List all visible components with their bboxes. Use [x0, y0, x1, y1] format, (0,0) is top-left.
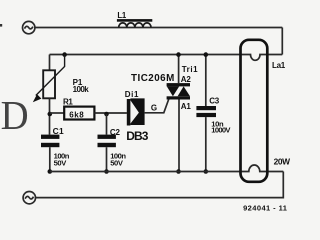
- AC source terminal top: [23, 21, 35, 33]
- AC source terminal bottom: [23, 192, 35, 204]
- watermark letter D: [1, 93, 29, 138]
- triac Tri1: [131, 55, 198, 172]
- svg-text:G: G: [151, 103, 157, 112]
- junction triac top: [176, 52, 181, 57]
- wire top rail: [35, 27, 282, 29]
- capacitor C1: [41, 126, 70, 172]
- left margin tick: [0, 24, 2, 27]
- junction triac bottom: [176, 169, 181, 174]
- junction C2 bottom: [104, 169, 109, 174]
- svg-text:C1: C1: [53, 126, 64, 136]
- svg-text:924041 - 11: 924041 - 11: [243, 204, 287, 213]
- inductor L1: [117, 11, 152, 28]
- svg-text:1000V: 1000V: [211, 125, 231, 134]
- svg-text:La1: La1: [272, 61, 286, 70]
- capacitor C2: [98, 114, 127, 172]
- svg-text:Tri1: Tri1: [182, 65, 198, 74]
- junction C3 top: [204, 52, 209, 57]
- diac Di1: [125, 90, 145, 126]
- wire right down to lamp top: [281, 28, 283, 55]
- svg-text:C2: C2: [110, 128, 121, 137]
- svg-text:L1: L1: [117, 11, 126, 20]
- node P1 top: [49, 55, 51, 71]
- lamp La1 tube: [241, 40, 291, 182]
- svg-text:A2: A2: [181, 75, 192, 84]
- node wiper junction: [62, 52, 67, 57]
- svg-text:DB3: DB3: [126, 129, 149, 143]
- wire R1 to diac: [94, 112, 127, 114]
- svg-text:C3: C3: [209, 97, 220, 106]
- potentiometer P1: [33, 55, 89, 135]
- svg-text:20W: 20W: [274, 156, 291, 166]
- junction P1/R1/C1: [48, 112, 53, 117]
- svg-text:100k: 100k: [73, 85, 90, 94]
- junction C1 bottom: [48, 169, 53, 174]
- svg-text:50V: 50V: [54, 159, 68, 168]
- wire diac to gate: [145, 99, 169, 113]
- svg-text:R1: R1: [63, 98, 73, 107]
- junction C2: [104, 112, 109, 117]
- junction C3 bottom: [204, 169, 209, 174]
- wire lamp right down: [35, 172, 283, 198]
- svg-text:6k8: 6k8: [69, 110, 84, 119]
- svg-text:Di1: Di1: [125, 90, 139, 99]
- svg-text:50V: 50V: [110, 159, 124, 168]
- bottom rail with lamp bottom electrode bump: [50, 165, 283, 171]
- capacitor C3: [196, 55, 231, 172]
- svg-text:TIC206M: TIC206M: [131, 73, 175, 84]
- wire to R1: [50, 112, 64, 114]
- resistor R1: [63, 98, 94, 120]
- svg-text:D: D: [1, 93, 29, 138]
- svg-text:A1: A1: [181, 102, 192, 111]
- wire phase line y55 with lamp top electrode bump: [50, 55, 283, 61]
